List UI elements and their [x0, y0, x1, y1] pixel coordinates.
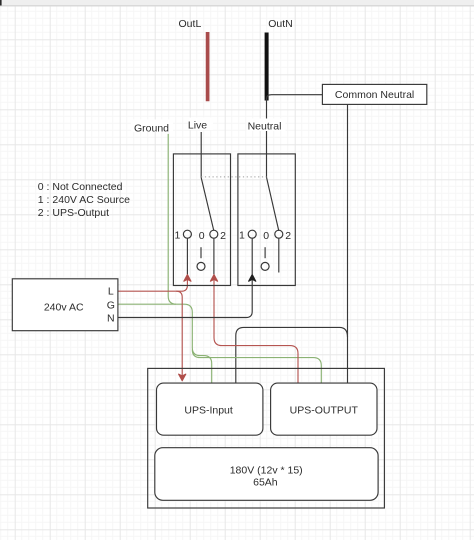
svg-text:0 : Not Connected: 0 : Not Connected — [38, 181, 123, 193]
svg-text:N: N — [107, 313, 115, 325]
svg-text:OutN: OutN — [268, 18, 293, 30]
svg-text:2: 2 — [285, 230, 291, 242]
svg-text:2 : UPS-Output: 2 : UPS-Output — [38, 207, 109, 219]
svg-text:Neutral: Neutral — [248, 121, 282, 133]
svg-text:L: L — [108, 285, 114, 297]
svg-text:OutL: OutL — [179, 18, 202, 30]
svg-text:Common Neutral: Common Neutral — [335, 89, 414, 101]
svg-text:65Ah: 65Ah — [253, 477, 278, 489]
svg-text:1 : 240V AC Source: 1 : 240V AC Source — [38, 194, 130, 206]
svg-text:2: 2 — [220, 230, 226, 242]
svg-text:Ground: Ground — [134, 122, 169, 134]
svg-text:1: 1 — [174, 230, 180, 242]
svg-text:1: 1 — [239, 230, 245, 242]
svg-text:0: 0 — [263, 230, 269, 242]
svg-text:UPS-Input: UPS-Input — [184, 404, 233, 416]
svg-text:Live: Live — [188, 119, 207, 131]
svg-text:180V (12v * 15): 180V (12v * 15) — [230, 465, 303, 477]
svg-text:0: 0 — [199, 230, 205, 242]
svg-text:UPS-OUTPUT: UPS-OUTPUT — [290, 404, 359, 416]
svg-text:240v AC: 240v AC — [44, 301, 84, 313]
svg-text:G: G — [107, 300, 115, 312]
